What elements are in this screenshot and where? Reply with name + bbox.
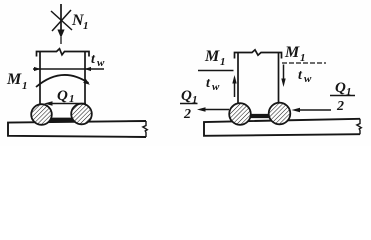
svg-text:t: t xyxy=(298,68,303,83)
svg-text:t: t xyxy=(206,76,211,91)
svg-text:t: t xyxy=(91,52,96,67)
svg-text:M: M xyxy=(6,71,22,88)
svg-text:M: M xyxy=(204,48,220,65)
svg-text:w: w xyxy=(212,81,220,93)
svg-text:1: 1 xyxy=(346,86,352,98)
svg-text:Q: Q xyxy=(181,88,192,104)
svg-text:Q: Q xyxy=(335,80,346,96)
svg-text:M: M xyxy=(284,44,300,61)
svg-text:w: w xyxy=(304,73,312,85)
svg-text:w: w xyxy=(97,57,105,69)
svg-text:2: 2 xyxy=(336,99,344,114)
svg-text:2: 2 xyxy=(183,107,191,122)
svg-text:1: 1 xyxy=(83,20,89,32)
svg-text:1: 1 xyxy=(22,80,28,92)
svg-text:1: 1 xyxy=(69,93,75,105)
svg-text:Q: Q xyxy=(57,88,68,104)
svg-text:1: 1 xyxy=(220,56,226,68)
svg-text:1: 1 xyxy=(192,94,198,106)
svg-text:1: 1 xyxy=(300,52,306,64)
